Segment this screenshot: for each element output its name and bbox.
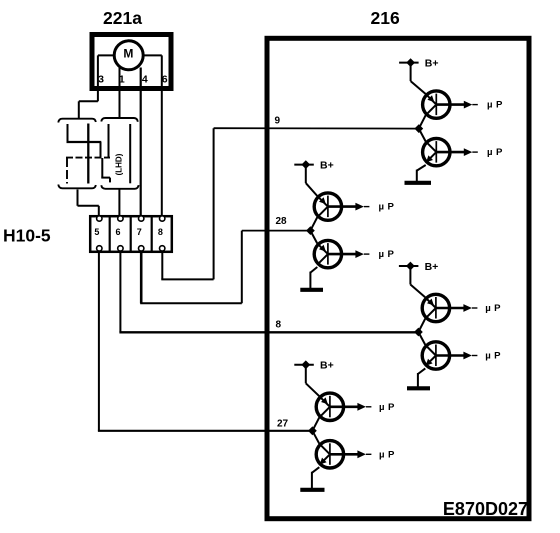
svg-text:4: 4 bbox=[142, 73, 148, 85]
svg-text:M: M bbox=[123, 47, 133, 61]
svg-text:B+: B+ bbox=[320, 360, 334, 372]
svg-text:27: 27 bbox=[277, 418, 289, 429]
svg-text:6: 6 bbox=[162, 73, 168, 85]
svg-text:H10-5: H10-5 bbox=[3, 226, 51, 246]
svg-text:6: 6 bbox=[115, 227, 120, 237]
svg-text:µ P: µ P bbox=[487, 147, 503, 158]
svg-text:3: 3 bbox=[98, 73, 104, 85]
svg-text:216: 216 bbox=[371, 8, 400, 28]
svg-text:8: 8 bbox=[276, 319, 282, 330]
svg-text:E870D027: E870D027 bbox=[443, 499, 528, 519]
svg-text:B+: B+ bbox=[425, 57, 439, 69]
svg-text:5: 5 bbox=[94, 227, 99, 237]
svg-text:B+: B+ bbox=[425, 261, 439, 273]
svg-text:221a: 221a bbox=[103, 8, 142, 28]
svg-text:8: 8 bbox=[158, 227, 163, 237]
svg-text:µ P: µ P bbox=[485, 351, 501, 362]
svg-text:1: 1 bbox=[119, 73, 125, 85]
svg-text:µ P: µ P bbox=[487, 100, 503, 111]
svg-text:µ P: µ P bbox=[379, 449, 395, 460]
svg-text:µ P: µ P bbox=[379, 202, 395, 213]
svg-text:µ P: µ P bbox=[379, 402, 395, 413]
svg-text:µ P: µ P bbox=[485, 303, 501, 314]
svg-text:7: 7 bbox=[137, 227, 142, 237]
svg-text:9: 9 bbox=[275, 115, 281, 126]
svg-text:B+: B+ bbox=[320, 159, 334, 171]
svg-text:(LHD): (LHD) bbox=[115, 153, 124, 175]
svg-text:28: 28 bbox=[276, 216, 288, 227]
svg-text:µ P: µ P bbox=[379, 249, 395, 260]
